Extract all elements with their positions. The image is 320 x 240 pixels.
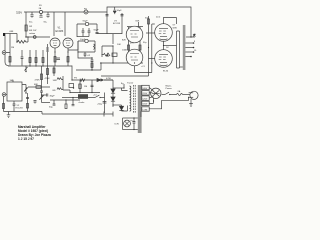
wire choke in [62, 97, 78, 99]
resistor R8 [42, 50, 44, 66]
resistor R1 [25, 25, 27, 31]
wire tap3 to selector [149, 96, 153, 98]
resistor R4 [9, 53, 11, 66]
wire PI drop [112, 46, 114, 63]
node HT1 [148, 47, 149, 48]
wire mixer vertical [41, 66, 43, 87]
wire secondary tap 3 [185, 51, 193, 53]
triode V3a [126, 26, 143, 43]
capacitor C21 [91, 58, 94, 61]
tap box 220V [142, 91, 149, 95]
wire V3 plate rail [127, 26, 143, 28]
capacitor C18 [133, 118, 136, 130]
plug prong 2 [189, 96, 194, 98]
svg-text:10µF: 10µF [117, 10, 123, 12]
svg-text:+50µ: +50µ [97, 104, 103, 106]
capacitor C4 [82, 28, 85, 37]
node VR2 [41, 94, 42, 95]
plug prong 1 [189, 92, 194, 94]
resistor R15 [139, 27, 141, 52]
svg-text:carbon: carbon [29, 33, 35, 35]
resistor R23 [27, 93, 29, 112]
wire V4 plate top [164, 18, 177, 25]
node V1a cathode [54, 51, 55, 52]
wire bias rail top [75, 79, 100, 81]
wire D3 row [113, 104, 122, 106]
wire box tick [12, 80, 14, 82]
resistor R3 [67, 57, 69, 63]
tap box 0V [142, 101, 149, 105]
pentode V5 EL34 [155, 50, 173, 68]
wire reservoir drop [104, 93, 106, 114]
wire V1a grid in [26, 36, 50, 38]
node VR1 [25, 71, 26, 72]
node bus 2 [35, 65, 36, 66]
svg-text:10K: 10K [117, 44, 121, 46]
node grid join [27, 36, 28, 37]
svg-text:Transf: Transf [127, 82, 134, 85]
node junction top-right [190, 36, 191, 37]
node tap4 [190, 56, 192, 58]
node mid [65, 99, 66, 100]
svg-text:(C#): (C#) [156, 16, 161, 18]
svg-text:240V: 240V [142, 88, 147, 90]
wire V4 cathode link [163, 41, 165, 49]
node V3b plate [134, 62, 135, 63]
tap box 120V [142, 96, 149, 100]
node bus 1 [29, 65, 30, 66]
diode D3 [119, 106, 123, 110]
node cathode link [163, 45, 164, 46]
fuse F1 [84, 10, 88, 14]
jack J2 [2, 51, 6, 55]
triode V1b [63, 38, 73, 48]
power transformer core dashed [133, 85, 135, 113]
capacitor C2 [39, 16, 42, 17]
wire neutral return [149, 97, 188, 109]
wire standby out [100, 97, 105, 99]
wire switch to fuse [170, 94, 177, 96]
wire rect row [113, 87, 124, 89]
node HT secondary top [101, 79, 103, 81]
wire bias drop 2 [91, 80, 93, 93]
fuse F6 [33, 36, 36, 39]
svg-text:EL34: EL34 [163, 71, 169, 73]
node bias2 [91, 92, 92, 93]
capacitor C15 [34, 101, 37, 104]
voltage selector SW1 [151, 88, 161, 98]
wire tap4 to selector [149, 98, 153, 104]
wire pilot bottom [123, 129, 138, 131]
svg-text:1M: 1M [11, 47, 14, 49]
ground stub 2 [112, 112, 114, 117]
capacitor C12 [91, 85, 94, 86]
resistor R6 [29, 50, 31, 66]
svg-text:50µF: 50µF [94, 29, 100, 31]
node VR3 [25, 92, 26, 93]
capacitor C7 [57, 58, 61, 59]
resistor R18 [41, 74, 43, 80]
wire choke branch [72, 98, 75, 106]
svg-text:30µF: 30µF [50, 96, 56, 98]
resistor R27 [91, 61, 93, 70]
potentiometer VR2 [39, 92, 43, 102]
fuse F5 [39, 10, 42, 13]
node rect [123, 87, 124, 88]
pentode V4 EL34 [155, 24, 173, 42]
wire grid wire el34b [149, 58, 155, 60]
lamp PL1 [124, 120, 131, 127]
node tap2 [193, 47, 195, 49]
wire PI feed [106, 12, 108, 34]
capacitor C6 [96, 32, 99, 34]
diode D2 [111, 97, 115, 101]
svg-text:8Ω: 8Ω [53, 90, 56, 92]
wire mid link low [76, 63, 101, 70]
tap box 240V [142, 85, 149, 89]
wire heater drop [140, 111, 142, 117]
svg-text:120V: 120V [142, 98, 147, 100]
svg-text:68K: 68K [10, 31, 14, 33]
capacitor C19 [21, 50, 24, 66]
node pilot 1 [133, 117, 134, 118]
resistor R2 [54, 57, 56, 63]
wire screen tap [164, 45, 177, 47]
svg-text:Power: Power [166, 87, 172, 90]
svg-text:100K: 100K [122, 50, 128, 52]
resistor R13 [112, 53, 117, 56]
wire jack2 riser [9, 34, 11, 43]
svg-text:1M: 1M [10, 80, 13, 82]
wire HT return [101, 75, 149, 77]
jack J1 [3, 33, 5, 36]
wire ground bus [8, 65, 72, 67]
wire bus to bias rail [71, 66, 73, 81]
wire fb jog [63, 90, 70, 93]
svg-text:325V: 325V [16, 10, 22, 14]
node mid link [100, 62, 101, 63]
capacitor C13 [13, 101, 16, 112]
speaker jack arrow [193, 34, 196, 37]
wire V1a cathode [54, 48, 56, 66]
diode D5 [97, 78, 101, 81]
wire HT bus 1 [148, 16, 150, 76]
wire secondary tap 4 [185, 56, 191, 58]
triode V3b [126, 49, 143, 66]
wire bottom long rail [42, 113, 113, 115]
wire PI mid rail [100, 62, 143, 64]
node box drop [91, 57, 92, 58]
wire V3 plate feed [138, 22, 140, 27]
wire pilot left [122, 118, 124, 130]
capacitor C5 [88, 28, 91, 37]
svg-text:6.3V: 6.3V [115, 124, 120, 126]
wire fb vertical [62, 76, 64, 90]
wire HT secondary top [104, 80, 113, 88]
wire jack to box [6, 94, 7, 96]
diode D4 [106, 53, 109, 57]
wire choke out [88, 97, 95, 99]
svg-text:10µF: 10µF [80, 39, 86, 41]
wire screen sub rail [77, 24, 97, 37]
resistor R24 [65, 100, 67, 104]
svg-text:68K: 68K [34, 84, 38, 86]
resistor R22 [3, 104, 5, 109]
svg-text:COM: COM [142, 109, 147, 111]
wire drop to C3 [47, 12, 49, 14]
svg-text:100V: 100V [142, 104, 147, 106]
coupling box top [78, 41, 95, 52]
wire drop to R1 [25, 12, 27, 37]
wire main B+ rail [24, 11, 107, 13]
svg-text:choke: choke [79, 102, 86, 104]
capacitor C20 [113, 7, 116, 13]
node bias1 [79, 92, 80, 93]
wire fuse to plug [183, 94, 191, 96]
switch mains SW2 [165, 92, 169, 94]
resistor R19 [47, 62, 49, 84]
wire D1-D2 [112, 88, 114, 107]
node tap1 [193, 42, 195, 44]
svg-text:Mains: Mains [166, 85, 173, 87]
input jack rail [5, 34, 9, 66]
wire box bottom [78, 51, 95, 53]
wire sub rail bottom [77, 36, 89, 38]
svg-text:470K: 470K [45, 78, 51, 80]
wire lower grid [28, 86, 50, 88]
svg-text:16Ω: 16Ω [53, 80, 57, 82]
wire screen feed 1 [152, 23, 155, 25]
wire V3b tail [135, 66, 152, 73]
power transformer primary winding [138, 85, 142, 133]
svg-text:1M: 1M [84, 86, 87, 88]
svg-text:ECC83: ECC83 [16, 108, 24, 110]
diode D1 [111, 89, 115, 93]
svg-text:1 J 15 J 97: 1 J 15 J 97 [18, 137, 34, 141]
capacitor C8 [84, 52, 87, 57]
capacitor C11 [40, 87, 43, 92]
resistor R14 [128, 27, 130, 52]
resistor R26 [57, 88, 63, 90]
svg-text:220V: 220V [142, 93, 147, 95]
node switch out [169, 94, 170, 95]
svg-text:1W: 1W [29, 26, 32, 28]
ground chassis [189, 104, 193, 107]
wire NFB lower [72, 79, 113, 81]
node A [25, 36, 26, 37]
node R27 bottom [91, 69, 92, 70]
fuse F2 [85, 22, 88, 25]
wire pilot top [123, 117, 138, 119]
lower input jack J2 [2, 93, 6, 97]
wire input drop [16, 34, 18, 43]
wire D3 drop [121, 105, 123, 111]
wire tap1 to selector [149, 88, 153, 91]
svg-text:82K: 82K [136, 20, 140, 22]
wire drop to C1 [31, 12, 33, 14]
node pilot 2 [133, 129, 134, 130]
svg-text:50W: 50W [173, 28, 177, 30]
fuse F4 [177, 94, 183, 96]
svg-text:10K 1W: 10K 1W [29, 30, 38, 32]
wire HT bus 2 [151, 24, 153, 73]
svg-text:82K: 82K [122, 40, 126, 42]
volume box [7, 82, 22, 101]
node HT2 [151, 62, 152, 63]
svg-text:ECC83: ECC83 [56, 30, 64, 33]
wire tone bottom [4, 112, 43, 115]
output transformer core [183, 25, 186, 70]
svg-text:470K: 470K [35, 80, 41, 82]
capacitor C22 [42, 94, 48, 97]
tap box COM [142, 107, 149, 111]
node presence [73, 87, 74, 88]
node choke branch [72, 97, 73, 98]
wire mid rail [50, 99, 80, 101]
resistor R10 [53, 66, 55, 76]
resistor R16 [148, 19, 150, 24]
wire drop to C2 [40, 14, 42, 16]
power transformer secondary winding [130, 86, 131, 111]
wire OT primary bottom [180, 66, 183, 68]
ground stub 1 [103, 112, 105, 117]
wire tap2 to selector [149, 92, 152, 94]
capacitor C17 [103, 102, 107, 104]
potentiometer VR1 wiper [25, 66, 28, 72]
node tap4 [153, 100, 154, 101]
wire HT winding top tap [122, 88, 128, 91]
node PI [112, 45, 113, 46]
wire coupling box drop [78, 52, 92, 58]
wire mid link [42, 102, 51, 104]
node PI rail 1 [112, 62, 113, 63]
wire rect tick [123, 84, 125, 88]
wire selector to switch [162, 94, 165, 96]
node plug neutral [188, 97, 189, 98]
resistor R20 [80, 79, 85, 82]
resistor R11 [94, 44, 96, 50]
wire HT winding bottom tap [122, 106, 128, 112]
potentiometer VR3 [22, 85, 28, 94]
switch standby [95, 95, 99, 97]
capacitor C10 [121, 15, 124, 16]
node bus 3 [42, 65, 43, 66]
resistor R21 [79, 84, 81, 89]
wire bias bottom rail [70, 92, 100, 94]
wire jack2 [6, 42, 10, 53]
wire top outer loop to speaker [107, 7, 191, 37]
wire plate feed V1b [64, 12, 66, 36]
plug P1 [190, 91, 198, 99]
capacitor C14 [26, 97, 29, 98]
wire V1b plate out [68, 41, 78, 50]
wire speaker jack [186, 36, 195, 38]
wire left drop [3, 97, 5, 112]
wire PI top rail [97, 34, 122, 44]
node tap3 [193, 51, 195, 53]
wire plug earth [190, 99, 192, 104]
ground lower-left [7, 112, 11, 118]
node box [77, 51, 78, 52]
resistor R5 [17, 37, 28, 43]
capacitor C1 [30, 15, 33, 18]
triode V1a [50, 38, 60, 48]
resistor R9 [47, 44, 49, 62]
wire input top [5, 33, 17, 35]
node standby [99, 97, 100, 98]
wire plate feed V1a [53, 12, 55, 36]
wire PI left [102, 46, 113, 57]
wire grid wire el34a [146, 32, 155, 34]
resistor R17 [36, 86, 41, 89]
node NFB [71, 79, 72, 80]
node grid [16, 41, 17, 42]
resistor R25 [57, 78, 63, 80]
wire C10 drop [121, 13, 123, 34]
output transformer OT primary [177, 31, 180, 68]
capacitor C9 [106, 15, 109, 16]
fuse F3 [85, 39, 88, 42]
capacitor C16 [53, 100, 56, 105]
wire bias drop 1 [79, 80, 81, 93]
choke L1 [78, 94, 88, 99]
presence box [69, 84, 74, 88]
node D2 out [112, 104, 113, 105]
resistor R12 [102, 53, 111, 56]
node V1b cathode [67, 51, 68, 52]
wire secondary tap 2 [185, 47, 193, 49]
node fb jog [69, 92, 70, 93]
resistor R7 [35, 50, 37, 66]
wire V1b cathode [67, 48, 69, 66]
wire secondary tap 1 [185, 42, 193, 44]
svg-text:50µF: 50µF [83, 21, 89, 23]
capacitor C3 [46, 15, 49, 18]
svg-text:ECC83: ECC83 [113, 23, 121, 25]
